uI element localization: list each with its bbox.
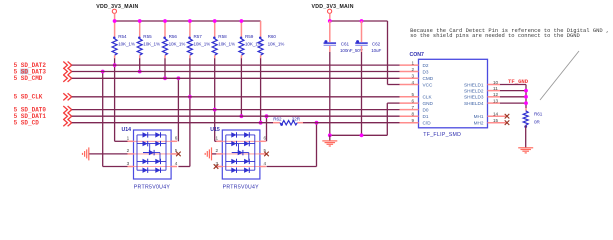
svg-text:10K_1%: 10K_1% xyxy=(143,41,160,46)
svg-text:10K_1%: 10K_1% xyxy=(218,41,235,46)
CON7 pin 7 D0 xyxy=(400,109,419,111)
svg-text:6: 6 xyxy=(175,136,178,141)
svg-text:10K_1%: 10K_1% xyxy=(118,41,135,46)
wire: R58 column to U15 pin 1 xyxy=(214,110,216,142)
svg-text:10K_1%: 10K_1% xyxy=(169,41,186,46)
svg-text:SHIELD1: SHIELD1 xyxy=(464,82,484,87)
wire: VCC feed to CON7 pin 4 xyxy=(387,21,389,85)
resistor R54 10K_1% xyxy=(114,21,116,39)
svg-text:2: 2 xyxy=(215,148,218,153)
svg-text:VDD_3V3_MAIN: VDD_3V3_MAIN xyxy=(96,4,138,10)
svg-text:8: 8 xyxy=(411,112,414,117)
wire shield xyxy=(500,90,526,92)
svg-text:D1: D1 xyxy=(423,114,429,119)
svg-text:6: 6 xyxy=(264,136,267,141)
wire: CON7 GND pin 6 to ground rail xyxy=(387,102,399,104)
power symbol VDD_3V3_MAIN (left) xyxy=(112,9,116,13)
ESD array U14 PRTR5V0U4Y xyxy=(134,130,172,179)
svg-text:4: 4 xyxy=(411,80,414,85)
svg-text:10: 10 xyxy=(493,80,499,85)
svg-text:R54: R54 xyxy=(118,34,127,39)
wire: R61 to ground xyxy=(525,125,527,147)
svg-text:PRTR5V0U4Y: PRTR5V0U4Y xyxy=(134,184,171,190)
CON7 pin 15 MH2 xyxy=(488,122,507,124)
svg-text:13: 13 xyxy=(493,99,499,104)
wire: C62 lower lead to ground rail xyxy=(361,52,363,135)
svg-text:10K_1%: 10K_1% xyxy=(194,41,211,46)
wire SD_DAT1 xyxy=(72,115,400,117)
wire SD_CMD xyxy=(72,77,400,79)
wire: capacitor rail xyxy=(330,20,388,22)
wire shield xyxy=(500,102,526,104)
svg-text:SD_CLK: SD_CLK xyxy=(21,94,43,101)
no-connect X MH2 xyxy=(505,120,510,125)
wire SD_CLK xyxy=(72,96,400,98)
svg-text:10K_1%: 10K_1% xyxy=(268,41,285,46)
svg-text:MH2: MH2 xyxy=(474,121,484,126)
junction R56/SD_CMD xyxy=(163,76,167,80)
off-page connector SD_DAT3 xyxy=(20,69,28,74)
CON7 pin 1 D2 xyxy=(400,64,419,66)
ground (U15 pin 2) xyxy=(211,147,213,160)
wire: pull-up rail xyxy=(115,20,261,22)
svg-text:C/D: C/D xyxy=(423,121,432,126)
CON7 pin 13 SHIELD4 xyxy=(488,102,501,104)
svg-text:1: 1 xyxy=(127,136,130,141)
CON7 pin 10 SHIELD1 xyxy=(488,84,501,86)
svg-text:PRTR5V0U4Y: PRTR5V0U4Y xyxy=(223,184,260,190)
svg-text:CON7: CON7 xyxy=(410,52,425,58)
svg-text:14: 14 xyxy=(493,112,499,117)
svg-text:R58: R58 xyxy=(218,34,227,39)
no-connect X U15 pin 5 xyxy=(264,152,269,157)
svg-text:5: 5 xyxy=(14,75,18,82)
CON7 pin 6 GND xyxy=(400,102,419,104)
CON7 pin 3 CMD xyxy=(400,77,419,79)
svg-text:2: 2 xyxy=(127,148,130,153)
svg-text:VCC: VCC xyxy=(423,82,434,87)
CON7 pin 12 SHIELD3 xyxy=(488,96,501,98)
CON7 pin 14 MH1 xyxy=(488,115,507,117)
wire: SD_CMD drop to U14 pin 6 xyxy=(177,78,179,141)
svg-text:C62: C62 xyxy=(372,41,381,46)
svg-text:SHIELD3: SHIELD3 xyxy=(464,95,484,100)
ground (U14 pin 2) xyxy=(88,147,90,160)
svg-text:5: 5 xyxy=(411,92,414,97)
wire: R57 column to U14 pin 4 xyxy=(189,97,191,167)
CON7 pin 11 SHIELD2 xyxy=(488,90,501,92)
junction R59/SD_DAT1 xyxy=(240,114,244,118)
svg-text:R57: R57 xyxy=(194,34,203,39)
wire: SD_DAT3 drop to U14 pin 3 xyxy=(102,72,104,167)
wire: shield bus vertical xyxy=(525,85,527,109)
svg-text:100nF_50V: 100nF_50V xyxy=(340,48,364,53)
wire: U14 pin2 to ground xyxy=(89,153,127,155)
capacitor C62 10uF xyxy=(361,21,363,42)
resistor R61 0R xyxy=(525,108,527,111)
svg-text:R55: R55 xyxy=(143,34,152,39)
junction R54/SD_DAT2 xyxy=(113,63,117,67)
pointer line xyxy=(540,51,579,100)
resistor R62 22R (series in SD_CD) xyxy=(273,122,280,124)
svg-text:so the shield pins are needed: so the shield pins are needed to connect… xyxy=(410,32,580,39)
svg-text:0R: 0R xyxy=(534,120,541,125)
svg-text:SD_CMD: SD_CMD xyxy=(21,75,43,82)
wire SD_DAT3 xyxy=(72,71,400,73)
resistor R59 10K_1% xyxy=(240,21,242,39)
resistor R57 10K_1% xyxy=(189,21,191,39)
svg-text:15: 15 xyxy=(493,118,499,123)
svg-text:SHIELD2: SHIELD2 xyxy=(464,88,484,93)
svg-text:5: 5 xyxy=(14,120,18,127)
resistor R55 10K_1% xyxy=(139,21,141,39)
svg-text:C61: C61 xyxy=(341,41,350,46)
svg-text:11: 11 xyxy=(493,86,498,91)
resistor R60 10K_1% xyxy=(260,21,262,39)
CON7 pin 4 VCC xyxy=(400,84,419,86)
wire shield xyxy=(500,96,526,98)
svg-text:R59: R59 xyxy=(245,34,254,39)
connector CON7 TF_FLIP_SMD xyxy=(419,59,488,128)
svg-text:6: 6 xyxy=(411,99,414,104)
svg-text:2: 2 xyxy=(411,67,414,72)
CON7 pin 8 D1 xyxy=(400,115,419,117)
svg-text:10uF: 10uF xyxy=(371,48,381,53)
CON7 pin 5 CLK xyxy=(400,96,419,98)
svg-text:7: 7 xyxy=(411,105,414,110)
junction R58/SD_DAT0 xyxy=(213,108,217,112)
no-connect X U14 pin 5 xyxy=(176,152,181,157)
wire shield xyxy=(500,84,526,86)
junction R55/SD_DAT3 xyxy=(138,70,142,74)
junction dots on pull-up rail xyxy=(113,19,117,23)
svg-text:9: 9 xyxy=(411,118,414,123)
svg-text:TF_FLIP_SMD: TF_FLIP_SMD xyxy=(423,132,461,138)
no-connect X U15 pin 3 xyxy=(214,164,219,169)
CON7 pin 9 C/D xyxy=(400,122,419,124)
svg-text:4: 4 xyxy=(175,161,178,166)
svg-text:D3: D3 xyxy=(423,69,429,74)
svg-text:5: 5 xyxy=(14,94,18,101)
svg-text:U14: U14 xyxy=(121,127,131,133)
wire SD_DAT0 xyxy=(72,109,400,111)
svg-text:1: 1 xyxy=(215,136,218,141)
wire SD_CD xyxy=(72,122,273,124)
svg-text:CLK: CLK xyxy=(423,95,433,100)
resistor R56 10K_1% xyxy=(164,21,166,39)
wire: ground rail under capacitors xyxy=(330,134,388,136)
junction R57/SD_CLK xyxy=(188,95,192,99)
svg-text:MH1: MH1 xyxy=(474,114,484,119)
svg-text:3: 3 xyxy=(127,161,130,166)
svg-text:12: 12 xyxy=(493,92,499,97)
svg-text:VDD_3V3_MAIN: VDD_3V3_MAIN xyxy=(312,4,354,10)
ESD array U15 PRTR5V0U4Y xyxy=(222,130,260,179)
svg-text:D2: D2 xyxy=(423,63,429,68)
svg-text:1: 1 xyxy=(411,61,414,66)
junction R60/SD_CD xyxy=(259,121,263,125)
svg-text:D0: D0 xyxy=(423,107,429,112)
no-connect X MH1 xyxy=(505,114,510,119)
wire: R54 column to U14 pin 1 xyxy=(114,65,116,141)
ground (R61) xyxy=(518,147,533,149)
CON7 pin 2 D3 xyxy=(400,71,419,73)
svg-text:22R: 22R xyxy=(292,117,301,122)
svg-text:SHIELD4: SHIELD4 xyxy=(464,101,484,106)
svg-text:SD_CD: SD_CD xyxy=(21,120,39,127)
wire: U15 pin2 to ground xyxy=(212,153,216,155)
power symbol VDD_3V3_MAIN (middle) xyxy=(328,9,332,13)
ground (capacitor rail) xyxy=(329,135,331,140)
wire: SD_DAT1 drop to U15 pin 6 xyxy=(266,116,268,141)
svg-text:R60: R60 xyxy=(268,34,277,39)
svg-text:GND: GND xyxy=(423,101,434,106)
wire: C61 lower lead to ground rail xyxy=(329,52,331,135)
wire SD_DAT2 xyxy=(72,64,400,66)
svg-text:4: 4 xyxy=(264,161,267,166)
svg-text:R61: R61 xyxy=(534,112,543,117)
svg-text:CMD: CMD xyxy=(423,76,434,81)
svg-text:U15: U15 xyxy=(210,127,220,133)
svg-text:3: 3 xyxy=(411,74,414,79)
svg-text:R56: R56 xyxy=(169,34,178,39)
capacitor C61 100nF_50V xyxy=(329,21,331,42)
wire: SD_CD drop to U15 pin 4 xyxy=(316,123,318,167)
svg-text:R62: R62 xyxy=(273,117,282,122)
resistor R58 10K_1% xyxy=(214,21,216,39)
